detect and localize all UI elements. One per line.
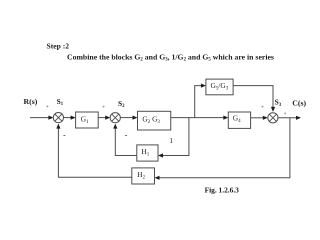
node takeoff down to H1	[158, 118, 189, 158]
wire G2G3 to G4	[171, 116, 229, 120]
wire H1 to S2 bottom	[113, 124, 137, 156]
block G4	[228, 112, 250, 128]
title line "Combine the blocks..."	[67, 52, 274, 62]
wire G5/G3 to S3 top	[233, 86, 275, 112]
svg-text:Fig. 1.2.6.3: Fig. 1.2.6.3	[205, 185, 240, 194]
block G1	[76, 112, 99, 128]
wire H2 to S1 bottom	[56, 124, 132, 178]
node takeoff down to H2	[155, 118, 290, 180]
wire G1 to S2	[98, 116, 110, 120]
svg-text:+: +	[102, 105, 105, 111]
minus sign below S1	[63, 135, 65, 137]
plus sign left of S3	[261, 105, 264, 111]
label C(s)	[292, 99, 306, 108]
label S1	[57, 97, 64, 107]
plus sign at S1	[46, 104, 49, 110]
block G2G3	[138, 111, 171, 130]
wire G4 to S3	[251, 116, 268, 120]
plus sign at S2	[102, 105, 105, 111]
svg-text:Combine the blocks G2 and G3,: Combine the blocks G2 and G3, 1/G2 and G…	[67, 52, 274, 62]
plus sign right of S3	[284, 111, 287, 117]
summing junction S2	[110, 113, 120, 123]
label S2	[118, 99, 125, 109]
node takeoff up to G5/G3	[195, 84, 206, 118]
svg-text:C(s): C(s)	[292, 99, 306, 108]
svg-text:Step :2: Step :2	[47, 41, 70, 50]
svg-text:1: 1	[169, 136, 173, 145]
wire S2 to G2G3	[120, 116, 137, 120]
summing junction S1	[53, 113, 63, 123]
svg-text:+: +	[284, 111, 287, 117]
wire S1 to G1	[64, 116, 76, 120]
caption Fig. 1.2.6.3	[205, 185, 240, 194]
svg-text:+: +	[46, 104, 49, 110]
block H2	[132, 168, 155, 184]
title line "Step :2"	[47, 41, 70, 50]
svg-text:R(s): R(s)	[24, 97, 38, 106]
label S3	[275, 97, 282, 107]
wire S3 to output C(s)	[278, 116, 301, 120]
minus sign below S2	[125, 135, 127, 137]
block G5/G3	[206, 79, 233, 95]
svg-text:+: +	[261, 105, 264, 111]
summing junction S3	[268, 113, 278, 123]
wire input to S1	[30, 116, 53, 120]
label 1 (takeoff point)	[169, 136, 173, 145]
label R(s)	[24, 97, 38, 106]
block H1	[137, 145, 158, 161]
